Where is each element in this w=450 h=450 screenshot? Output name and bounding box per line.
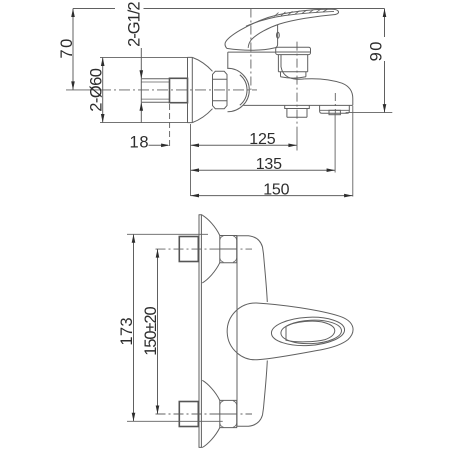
escutcheon (side view) [188,57,213,122]
diverter centerline [296,42,298,127]
extension line top (70 dim) [73,8,115,10]
diverter knob [276,47,311,78]
centerline horizontal [66,89,100,91]
dimension 150±20 [142,249,160,414]
centerline bottom connector [156,413,253,415]
svg-text:135: 135 [256,156,282,173]
hex union nut (side view) [213,71,228,108]
extension line body right face [352,106,354,197]
grip oval outer [271,315,346,347]
dimension 18 [130,134,170,152]
dimension 2-G1/2 [125,2,143,123]
dimension 2-Ø60 [87,57,187,122]
dimension 70 [58,9,76,90]
dimension 135 [191,156,336,173]
cartridge centerline [250,9,252,91]
hex nut bottom connector [220,400,237,427]
cone top connector (trumpet) [202,215,220,283]
handle grip hatching [274,9,328,16]
svg-text:18: 18 [130,134,150,152]
centerline top connector [156,248,253,250]
svg-text:173: 173 [118,317,136,345]
dimension 125 [191,131,297,148]
svg-text:150: 150 [263,181,289,198]
body top-right profile and right face [305,79,353,106]
spout centerline / 135 extension [334,93,336,113]
body slab (plan) [237,236,267,427]
indicator cap on neck [277,32,280,38]
handle paddle (plan) [227,303,353,360]
in-wall square top [179,237,198,262]
shower outlet (under body) [285,105,310,117]
inlet pipe (side view) [141,79,169,103]
dimension 150 [191,181,353,198]
svg-text:70: 70 [58,37,76,58]
extension line top (90 dim) [144,8,385,10]
cone bottom connector (trumpet) [202,380,220,447]
lever handle (side view) [225,9,339,48]
svg-text:2-Ø60: 2-Ø60 [87,68,105,111]
wall square nut (side view) [170,78,188,102]
dimension 90 [346,9,393,113]
spout outlet (under body) [320,105,350,114]
valve dome [228,68,250,112]
grip D-shape inner [286,321,335,342]
body bottom line [244,104,353,106]
svg-text:125: 125 [249,131,275,148]
svg-text:90: 90 [367,40,385,61]
housing (cartridge body) [228,52,305,79]
svg-text:2-G1/2: 2-G1/2 [125,2,143,47]
extension line escutcheon face [190,124,192,196]
wall lines / escutcheon rims [199,215,201,448]
hex nut top connector [220,236,237,263]
grip oval middle [280,319,342,345]
in-wall square bottom [179,402,198,427]
handle bell base [227,25,278,51]
extension line wall (dashed) [169,104,171,148]
svg-text:150±20: 150±20 [142,307,160,356]
dimension 173 [118,234,223,421]
